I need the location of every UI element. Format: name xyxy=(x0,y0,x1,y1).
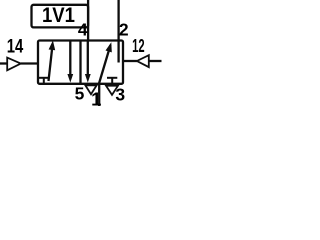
wire port 2 (top) xyxy=(117,0,119,63)
left box flow path 2 to 3 (down arrow shaft) xyxy=(69,41,71,79)
wire pilot 14 to valve xyxy=(21,62,38,64)
blocked port T right box (port 3) xyxy=(107,77,117,79)
pilot triangle 14 (left, pointing right) xyxy=(7,58,21,71)
label box 1V1 xyxy=(32,5,89,28)
svg-text:12: 12 xyxy=(132,36,145,56)
exhaust triangle port 5 xyxy=(85,85,96,94)
arrowhead right box down arrow xyxy=(85,74,91,83)
arrowhead right box diagonal arrow xyxy=(106,42,112,52)
pilot triangle 12 (right, pointing left) xyxy=(137,55,149,67)
right box flow path 4 to 5 (down arrow shaft) xyxy=(87,41,89,79)
wire pilot 12 right outer xyxy=(149,60,162,62)
svg-text:4: 4 xyxy=(78,20,88,40)
svg-text:1: 1 xyxy=(91,89,101,110)
valve body outline xyxy=(38,41,123,84)
wire pilot 14 left outer xyxy=(0,62,7,64)
right box flow path 1 to 2 (diagonal up arrow shaft) xyxy=(99,45,111,84)
svg-text:5: 5 xyxy=(75,84,85,104)
wire pilot 12 valve to triangle xyxy=(123,60,137,62)
svg-text:3: 3 xyxy=(115,85,125,105)
svg-text:14: 14 xyxy=(7,36,24,58)
arrowhead left box down arrow xyxy=(67,74,73,83)
wire port 4 (top) xyxy=(87,0,89,41)
exhaust triangle port 3 xyxy=(106,86,118,95)
valve position divider xyxy=(79,41,81,84)
svg-text:2: 2 xyxy=(119,20,129,40)
arrowhead left box up arrow xyxy=(49,40,56,50)
wire port 1 (bottom) xyxy=(98,84,100,106)
svg-text:1V1: 1V1 xyxy=(42,3,75,27)
blocked port T left box (port 5) xyxy=(39,77,50,79)
left box flow path 1 to 4 (diagonal up arrow shaft) xyxy=(49,45,53,81)
